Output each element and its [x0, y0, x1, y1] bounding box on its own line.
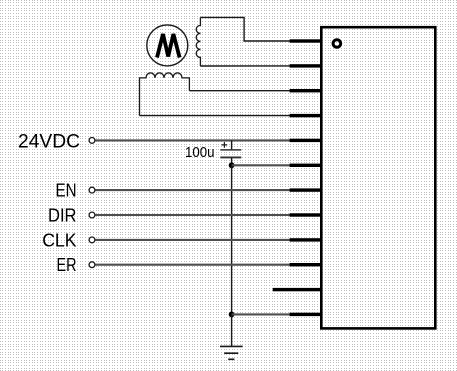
svg-text:EN: EN — [56, 180, 77, 201]
svg-text:100u: 100u — [185, 144, 215, 161]
svg-text:DIR: DIR — [48, 205, 77, 226]
terminal CLK — [89, 237, 95, 243]
wire L2 right to pin 3 — [189, 90, 290, 92]
svg-text:ER: ER — [57, 254, 77, 275]
inductor L1 — [196, 17, 200, 66]
wire DIR to pin 8 — [95, 214, 290, 216]
pin 1 dot marker — [333, 40, 341, 48]
inductor L2 — [140, 73, 190, 116]
wire ER to pin 10 — [95, 264, 290, 266]
IC U1 — [321, 27, 435, 328]
ground — [220, 346, 243, 359]
pin 12 — [290, 313, 322, 316]
node ground junction — [229, 312, 235, 318]
wire CLK to pin 9 — [95, 239, 290, 241]
wire EN to pin 7 — [95, 189, 290, 191]
pin 5 — [290, 139, 322, 142]
pin 11 — [273, 288, 322, 291]
pin 1 — [290, 39, 322, 42]
wire L2 left to pin 4 — [140, 115, 291, 117]
terminal 24VDC — [89, 138, 95, 144]
pin 9 — [290, 238, 322, 241]
terminal DIR — [89, 212, 95, 218]
pin 6 — [290, 164, 322, 167]
pin 4 — [290, 114, 322, 117]
wire ground junction down to ground — [231, 314, 233, 346]
wire 24VDC to pin 5 — [95, 139, 290, 141]
wire L1 bottom to pin 2 — [200, 65, 290, 67]
capacitor C1 — [220, 140, 241, 165]
svg-text:24VDC: 24VDC — [18, 131, 80, 152]
wire L1 top to pin 1 — [200, 17, 290, 41]
terminal EN — [89, 187, 95, 193]
motor M1 — [147, 25, 188, 66]
wire cap junction down to ground junction — [231, 165, 233, 314]
terminal ER — [89, 262, 95, 268]
node cap junction — [229, 162, 235, 168]
pin 7 — [290, 188, 322, 191]
svg-text:CLK: CLK — [42, 229, 77, 250]
wire ground junction to pin 12 — [232, 313, 291, 315]
wire cap junction to pin 6 — [232, 164, 291, 166]
pin 3 — [290, 89, 322, 92]
pin 10 — [290, 263, 322, 266]
pin 8 — [290, 213, 322, 216]
pin 2 — [290, 64, 322, 67]
